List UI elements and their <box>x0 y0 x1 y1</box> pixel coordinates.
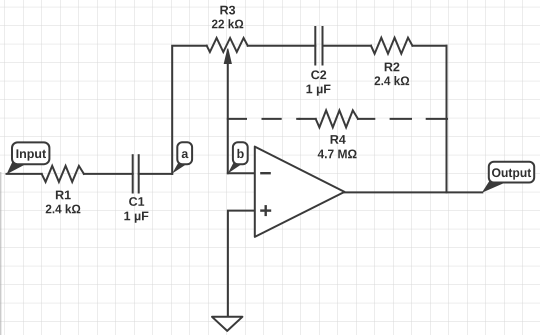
resistor R4 <box>316 110 358 127</box>
label C2 value 1 µF <box>307 85 331 96</box>
capacitor C2 <box>315 27 322 65</box>
op-amp U1 body <box>255 147 345 237</box>
node b callout <box>228 142 248 173</box>
op-amp U1 non-inverting input plus sign <box>260 205 271 216</box>
resistor R1 <box>42 166 84 182</box>
wire: node b to op-amp inverting input <box>228 172 255 174</box>
label R3 value 22 kΩ <box>212 19 243 28</box>
wire: Input tail to R1 <box>7 173 42 175</box>
label R3 R3 <box>220 6 235 15</box>
left page-edge shadow <box>0 172 1 335</box>
Output callout <box>482 162 534 193</box>
wire: R2 to top-right corner <box>412 45 446 47</box>
wire: R3 to C2 <box>248 45 316 47</box>
label C1 C1 <box>129 197 144 206</box>
label R2 R2 <box>385 63 400 72</box>
wire: R3 wiper shaft down to node b <box>227 62 229 174</box>
wire: non-inverting input to ground drop <box>228 211 255 317</box>
Input callout <box>7 142 50 174</box>
wire: dashed branch from R4 to right rail <box>391 118 447 120</box>
ground <box>212 317 242 331</box>
wire: C1 to node a corner <box>139 173 173 175</box>
wire: solid lead into R4 <box>299 118 315 120</box>
label R1 value 2.4 kΩ <box>46 204 81 213</box>
label R1 R1 <box>56 191 71 200</box>
potentiometer R3 wiper arrow <box>224 49 231 64</box>
wire: node a up to top rail <box>172 46 207 174</box>
label C2 C2 <box>311 70 326 79</box>
label R2 value 2.4 kΩ <box>375 76 410 85</box>
potentiometer R3 body <box>207 38 248 52</box>
op-amp U1 inverting input minus sign <box>260 172 271 174</box>
wire: solid lead out of R4 <box>358 118 374 120</box>
wire: C2 to R2 <box>323 45 372 47</box>
wire: right vertical rail down to output node <box>446 46 448 193</box>
label R4 R4 <box>331 135 346 144</box>
label R4 value 4.7 MΩ <box>318 150 357 159</box>
resistor R2 <box>371 38 412 54</box>
node a callout <box>172 142 192 173</box>
wire: R1 to C1 <box>84 173 133 175</box>
label C1 value 1 µF <box>124 212 148 223</box>
wire: dashed branch from node b wire to R4 <box>228 118 300 120</box>
capacitor C1 <box>133 155 139 192</box>
wire: op-amp output to Output tail <box>345 191 483 193</box>
